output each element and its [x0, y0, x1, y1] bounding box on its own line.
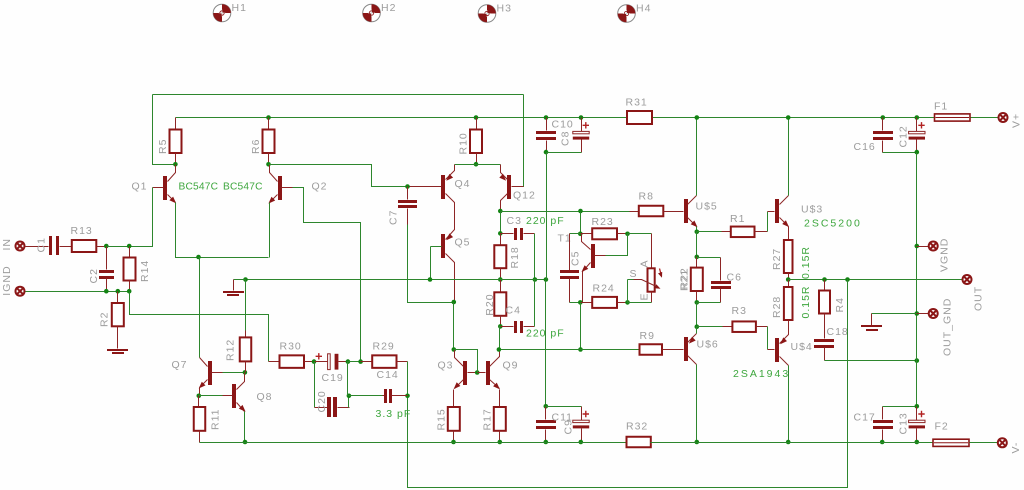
- svg-text:H3: H3: [497, 3, 512, 15]
- svg-text:C12: C12: [898, 125, 910, 147]
- resistor R10: [474, 115, 479, 120]
- svg-text:0.15R: 0.15R: [800, 285, 812, 318]
- capacitor C8 electrolytic: [579, 115, 584, 120]
- svg-text:R23: R23: [592, 216, 614, 228]
- wire Q7 collector up to tail: [199, 258, 200, 358]
- wire Q12 base from bootstrap rail: [512, 95, 524, 187]
- svg-text:C19: C19: [322, 372, 344, 384]
- svg-text:R24: R24: [593, 283, 615, 295]
- svg-text:2SC5200: 2SC5200: [804, 218, 862, 230]
- wire bootstrap rail y94.5: [153, 94, 524, 96]
- wire R18 column: [500, 212, 502, 234]
- resistor R1: [697, 231, 722, 233]
- pin IGND: [16, 287, 25, 296]
- svg-text:R11: R11: [210, 409, 222, 430]
- resistor R12: [240, 337, 252, 361]
- svg-text:R2: R2: [99, 312, 111, 327]
- transistor Q1: [163, 176, 167, 200]
- svg-text:V-: V-: [1010, 442, 1022, 454]
- resistor R15: [453, 390, 455, 408]
- svg-text:S: S: [630, 268, 638, 280]
- wire Q2 collector node to Q4 base: [269, 165, 408, 187]
- capacitor C19 electrolytic: [316, 353, 322, 359]
- svg-text:R1: R1: [730, 213, 745, 225]
- capacitor C1: [26, 246, 49, 248]
- capacitor C14: [349, 395, 383, 397]
- wire R12 top feed: [245, 280, 247, 331]
- svg-text:2SA1943: 2SA1943: [733, 368, 790, 380]
- wire bias chain down: [696, 303, 698, 327]
- capacitor C9 electrolytic: [546, 406, 582, 408]
- svg-text:R17: R17: [482, 408, 494, 430]
- svg-text:E: E: [639, 292, 651, 300]
- capacitor C20: [314, 362, 316, 408]
- svg-text:OUT_GND: OUT_GND: [942, 298, 954, 356]
- svg-text:C14: C14: [377, 369, 399, 381]
- resistor R20: [500, 280, 502, 293]
- svg-text:R18: R18: [509, 246, 521, 268]
- wire C19/C20 junction down: [347, 362, 349, 396]
- wire R11 bottom to V- rail: [200, 442, 246, 444]
- svg-text:F1: F1: [934, 101, 948, 113]
- resistor R27: [788, 227, 790, 241]
- capacitor C5: [570, 233, 581, 235]
- capacitor C17: [882, 407, 884, 420]
- svg-text:R32: R32: [626, 421, 648, 433]
- svg-text:C17: C17: [854, 412, 876, 424]
- wire U$5 emitter to R21: [696, 232, 698, 257]
- resistor R3: [697, 326, 723, 328]
- svg-text:R15: R15: [436, 408, 448, 430]
- svg-text:R22: R22: [679, 267, 691, 289]
- wire base drive rail y211: [501, 211, 630, 213]
- wire bias mid rail y279.5: [246, 279, 546, 281]
- wire Q1 collector to bootstrap rail: [153, 95, 176, 165]
- capacitor C3: [501, 233, 514, 235]
- wire U$5 emitter node: [696, 227, 698, 232]
- svg-text:U$4: U$4: [791, 341, 813, 353]
- transistor T1 (NPN mirrored): [591, 244, 595, 268]
- svg-text:Q9: Q9: [503, 360, 519, 372]
- wire R20 bottom down to Q9 collector: [500, 327, 501, 350]
- wire Q4/Q12 emitter rail: [455, 164, 501, 166]
- svg-text:R12: R12: [225, 339, 237, 361]
- resistor R9: [640, 344, 663, 355]
- transistor Q9 (NPN): [486, 361, 490, 385]
- svg-text:BC547C: BC547C: [179, 182, 219, 193]
- svg-text:R6: R6: [250, 139, 262, 154]
- resistor R21: [696, 257, 698, 268]
- wire U$3 collector to V+ rail: [788, 118, 790, 196]
- ground below R2: [107, 349, 128, 351]
- svg-text:R13: R13: [71, 225, 93, 237]
- wire Q5 col node to Q3 collector: [452, 347, 457, 352]
- svg-text:Q4: Q4: [455, 178, 471, 190]
- svg-text:IN: IN: [1, 238, 13, 251]
- resistor R32: [627, 437, 651, 448]
- wire base tie to Q3 collector node: [454, 350, 478, 373]
- transistor U$5 (NPN): [684, 199, 688, 223]
- resistor R6: [266, 115, 271, 120]
- wire U$4 collector to V- rail: [788, 366, 790, 443]
- resistor R18: [500, 234, 502, 246]
- capacitor C18: [814, 339, 834, 342]
- wire Q7 base to Q8 collector node: [223, 372, 245, 374]
- svg-text:C10: C10: [552, 119, 574, 131]
- pin IN: [16, 242, 25, 251]
- svg-text:U$3: U$3: [801, 204, 823, 216]
- wire C3 right lead down to mid rail: [524, 233, 535, 235]
- capacitor C10: [544, 115, 549, 120]
- svg-text:C18: C18: [827, 326, 849, 338]
- transistor U$4 (PNP power): [775, 338, 779, 362]
- transistor U$6 (PNP): [684, 337, 688, 361]
- capacitor C13 electrolytic: [916, 407, 918, 421]
- svg-text:R3: R3: [732, 305, 747, 317]
- wire V+ driver rail y117.5 left of R31: [176, 117, 628, 119]
- node R5 bottom / Q1 collector: [175, 154, 177, 165]
- svg-text:C6: C6: [727, 272, 742, 284]
- wire V- rail right of R32: [651, 442, 934, 444]
- transistor Q4 (PNP): [441, 175, 445, 199]
- wire Q5 collector node down to Q3: [453, 303, 455, 350]
- resistor R24: [581, 302, 593, 304]
- transistor Q5 (PNP): [441, 234, 445, 258]
- svg-text:R4: R4: [834, 297, 846, 312]
- mounting hole H1: [213, 4, 231, 22]
- svg-text:H4: H4: [636, 3, 651, 15]
- svg-text:Q2: Q2: [312, 181, 328, 193]
- svg-text:H2: H2: [381, 2, 396, 14]
- wire IGND net: [26, 291, 130, 293]
- wire Q7 emitter node: [199, 388, 201, 396]
- wire VGND vertical: [916, 153, 918, 407]
- node T1 emitter: [578, 300, 583, 305]
- svg-text:C4: C4: [506, 305, 521, 317]
- wire R29 right down to C14 node: [407, 362, 409, 396]
- svg-text:BC547C: BC547C: [223, 182, 263, 193]
- svg-text:C7: C7: [388, 210, 400, 225]
- wire T1 base loop: [606, 234, 628, 256]
- svg-text:Q12: Q12: [513, 190, 536, 202]
- transistor U$3 (NPN power): [775, 199, 779, 223]
- svg-text:Q3: Q3: [438, 360, 454, 372]
- capacitor C16: [881, 115, 886, 120]
- node T1 top tap: [580, 212, 582, 234]
- wire Q1 base down to input node: [130, 188, 153, 247]
- pin OUT: [963, 275, 972, 284]
- wire C4 right lead up to mid rail: [524, 326, 535, 328]
- wire feedback from IGND node to R30: [130, 292, 269, 362]
- wire decoupling mid vertical: [546, 153, 548, 280]
- pin V-: [970, 442, 998, 444]
- fuse F2: [933, 439, 969, 446]
- capacitor C6: [697, 257, 721, 259]
- wire Q2 base to VAS input: [293, 188, 361, 362]
- node R23 top tap: [578, 209, 583, 214]
- svg-text:R9: R9: [640, 330, 655, 342]
- mounting hole H2: [363, 4, 381, 22]
- pin OUT_GND: [915, 311, 920, 316]
- svg-text:V+: V+: [1011, 113, 1023, 128]
- wire Q8 emitter to V- rail: [244, 412, 246, 443]
- svg-text:A: A: [639, 259, 651, 267]
- svg-text:R30: R30: [280, 341, 302, 353]
- wire V- rail left of R32: [200, 442, 627, 444]
- svg-text:C20: C20: [316, 390, 328, 412]
- node Q3/Q9 base tie: [475, 370, 480, 375]
- svg-text:R29: R29: [373, 341, 395, 353]
- svg-text:Q1: Q1: [132, 181, 148, 193]
- resistor R28: [788, 280, 790, 288]
- svg-text:0.15R: 0.15R: [800, 246, 812, 279]
- resistor R31: [627, 111, 652, 124]
- svg-text:Q5: Q5: [455, 237, 471, 249]
- transistor Q12 (PNP mirrored): [507, 175, 511, 199]
- svg-text:OUT: OUT: [973, 286, 985, 311]
- resistor R5: [175, 118, 177, 130]
- svg-text:C8: C8: [560, 131, 572, 146]
- svg-text:C2: C2: [88, 268, 100, 283]
- wire Q8 base to Q7 emitter: [199, 395, 223, 397]
- wire C7 bottom to Q5 collector node: [407, 209, 409, 225]
- capacitor C11: [545, 407, 547, 420]
- wire C19 right to R29 left: [348, 361, 361, 363]
- node tail junction to Q7: [196, 255, 201, 260]
- capacitor C2: [106, 247, 108, 270]
- svg-text:C9: C9: [563, 419, 575, 434]
- svg-text:R14: R14: [139, 260, 151, 282]
- transistor Q3 (NPN mirrored): [463, 361, 467, 385]
- wire C17 top to VGND vertical: [883, 406, 917, 408]
- capacitor C12 electrolytic: [915, 115, 920, 120]
- wire C20 right up to C14 node: [348, 396, 350, 408]
- wire trimmer S to E node: [628, 279, 634, 281]
- pin VGND: [915, 244, 920, 249]
- node driver V- decoupling: [544, 404, 549, 409]
- trimmer R22: [648, 268, 655, 291]
- wire trimmer A feed: [628, 233, 652, 235]
- wire lower bias rail: [499, 349, 640, 351]
- wire U$6 emitter up: [696, 327, 698, 334]
- trimmer adjust arrow: [660, 269, 662, 277]
- transistor Q2: [278, 176, 282, 200]
- svg-text:H1: H1: [232, 2, 247, 14]
- svg-text:U$5: U$5: [696, 201, 718, 213]
- svg-text:R31: R31: [626, 97, 648, 109]
- resistor R30: [269, 361, 280, 363]
- svg-text:R20: R20: [484, 293, 496, 315]
- svg-text:3.3 pF: 3.3 pF: [376, 408, 412, 420]
- fuse F1: [935, 114, 971, 121]
- wire U$5 collector to V+ rail: [696, 118, 698, 196]
- svg-text:IGND: IGND: [1, 265, 13, 295]
- resistor R8: [630, 211, 639, 213]
- wire OUT rail: [789, 279, 963, 281]
- mounting hole H4: [618, 5, 636, 23]
- svg-text:U$6: U$6: [697, 339, 719, 351]
- transistor Q8 (NPN): [232, 384, 236, 408]
- resistor R13: [60, 246, 72, 248]
- resistor R2: [117, 292, 119, 304]
- wire Q2 emitter down to tail rail: [269, 203, 271, 258]
- resistor R4: [822, 277, 827, 282]
- svg-text:220 pF: 220 pF: [526, 215, 565, 227]
- svg-text:VGND: VGND: [939, 238, 951, 272]
- transistor Q7 (NPN mirrored): [208, 361, 212, 385]
- svg-text:Q8: Q8: [257, 391, 273, 403]
- wire C16 bottom to VGND node: [883, 152, 917, 154]
- resistor R17: [499, 390, 501, 408]
- wire V+ rail right of F1 to V+ pin: [971, 117, 999, 119]
- wire trimmer E to R24: [651, 292, 653, 303]
- wire T1 emitter node to lower rail: [580, 303, 582, 350]
- svg-text:C5: C5: [570, 251, 582, 266]
- capacitor C7: [405, 184, 410, 189]
- svg-text:Q7: Q7: [172, 359, 188, 371]
- resistor R14: [129, 247, 131, 258]
- svg-text:R27: R27: [771, 248, 783, 270]
- node Q12 collector: [498, 209, 503, 214]
- svg-text:C3: C3: [507, 215, 522, 227]
- ground stub on mid rail: [234, 279, 246, 281]
- wire Q1 emitter to tail: [176, 203, 269, 258]
- svg-text:C13: C13: [898, 412, 910, 434]
- svg-text:C1: C1: [36, 237, 48, 252]
- wire OUT bootstrap to feedback: [845, 277, 850, 282]
- node IN after R13: [104, 244, 109, 249]
- wire R1 to U$3 base: [767, 212, 769, 232]
- wire C8 bottom to C10 bottom: [547, 152, 582, 154]
- resistor R23: [581, 233, 593, 235]
- resistor R29: [361, 361, 373, 363]
- pin V+: [999, 113, 1008, 122]
- svg-text:R10: R10: [458, 132, 470, 154]
- ground at OUT_GND: [872, 313, 917, 315]
- capacitor C4: [501, 326, 514, 328]
- resistor R11: [198, 396, 200, 408]
- wire U$6 collector to V- rail: [696, 365, 698, 443]
- node R6 bottom / Q2 collector: [268, 154, 270, 165]
- svg-text:R8: R8: [639, 191, 654, 203]
- svg-text:R5: R5: [157, 139, 169, 154]
- wire Q5 base to mid rail: [430, 247, 432, 280]
- svg-text:C16: C16: [854, 141, 876, 153]
- svg-text:F2: F2: [935, 421, 949, 433]
- svg-text:R28: R28: [771, 296, 783, 318]
- wire C18 bottom to VGND vertical: [825, 360, 917, 362]
- mounting hole H3: [478, 5, 496, 23]
- trimmer wiper: [634, 280, 659, 288]
- wire V+ rail right of R31: [653, 117, 935, 119]
- wire R3 to U$4 base: [767, 327, 769, 350]
